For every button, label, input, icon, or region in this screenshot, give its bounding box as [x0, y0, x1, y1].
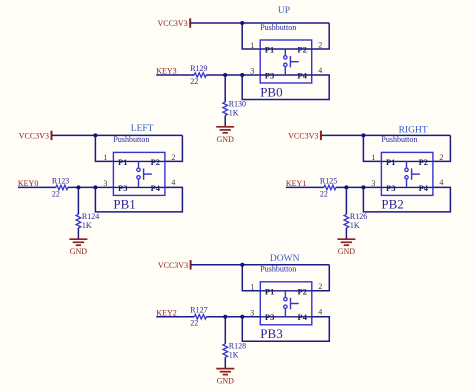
ground	[216, 127, 234, 144]
wire resistor to pin 3	[206, 316, 260, 318]
svg-text:3: 3	[250, 309, 254, 318]
svg-text:VCC3V3: VCC3V3	[19, 131, 49, 140]
svg-text:Pushbutton: Pushbutton	[381, 135, 417, 144]
junction (pull-down R124 tap)	[76, 185, 80, 189]
wire rail to pin 2	[312, 23, 330, 49]
wire tap to R130	[224, 75, 226, 102]
svg-text:P2: P2	[419, 157, 428, 167]
svg-text:GND: GND	[338, 247, 356, 256]
svg-text:P4: P4	[151, 183, 161, 193]
svg-text:GND: GND	[70, 247, 88, 256]
wire rail to pin 1	[363, 135, 381, 161]
wire VCC rail	[190, 22, 329, 24]
wire tap to R128	[224, 317, 226, 344]
junction (pull-down R130 tap)	[223, 73, 227, 77]
svg-text:4: 4	[318, 308, 322, 317]
wire R130 to ground	[224, 116, 226, 127]
pin line P3-P4	[381, 186, 433, 188]
pin line P3-P4	[260, 316, 312, 318]
wire resistor to pin 3	[68, 186, 114, 188]
pushbutton PB3 body	[260, 282, 312, 325]
svg-text:P4: P4	[298, 312, 308, 322]
svg-text:4: 4	[318, 66, 322, 75]
svg-text:22: 22	[190, 77, 198, 86]
pushbutton PB0 body	[260, 40, 312, 83]
junction (pin 4 return)	[361, 185, 365, 189]
wire tap to R124	[77, 187, 79, 214]
wire R128 to ground	[224, 357, 226, 368]
wire KEY net to resistor	[156, 74, 194, 76]
junction (pull-down R128 tap)	[223, 315, 227, 319]
svg-text:R124: R124	[82, 212, 99, 221]
svg-text:P4: P4	[419, 183, 429, 193]
svg-text:R129: R129	[190, 64, 207, 73]
pin line P1-P2	[113, 160, 164, 162]
svg-text:1: 1	[250, 283, 254, 292]
switch contact stubs and circles	[405, 161, 408, 187]
svg-text:P3: P3	[118, 183, 127, 193]
svg-text:VCC3V3: VCC3V3	[158, 261, 188, 270]
svg-text:3: 3	[103, 179, 107, 188]
svg-text:LEFT: LEFT	[131, 124, 154, 134]
svg-text:R126: R126	[350, 212, 367, 221]
svg-text:2: 2	[439, 153, 443, 162]
svg-text:P3: P3	[265, 70, 274, 80]
ground	[69, 239, 87, 256]
svg-text:R127: R127	[190, 306, 207, 315]
power port VCC3V3 (DOWN block)	[158, 260, 191, 270]
power port VCC3V3 (LEFT block)	[19, 131, 52, 141]
ground	[337, 239, 355, 256]
wire KEY net to resistor	[156, 316, 194, 318]
svg-text:PB3: PB3	[260, 326, 282, 341]
wire rail to pin 1	[242, 23, 260, 49]
wire R126 to ground	[345, 228, 347, 239]
pin line P1-P2	[260, 290, 312, 292]
power port VCC3V3 (UP block)	[157, 18, 190, 28]
svg-text:4: 4	[171, 178, 175, 187]
svg-text:GND: GND	[217, 135, 235, 144]
switch contact stubs and circles	[284, 49, 287, 75]
pin line P1-P2	[381, 160, 433, 162]
svg-text:PB2: PB2	[381, 197, 403, 212]
svg-text:R125: R125	[320, 176, 337, 185]
svg-text:P4: P4	[297, 70, 307, 80]
svg-text:2: 2	[318, 40, 322, 49]
svg-text:P1: P1	[118, 157, 127, 167]
switch contact stubs and circles	[137, 161, 140, 187]
junction (pin 4 return)	[93, 185, 97, 189]
switch actuator	[291, 298, 299, 309]
svg-text:RIGHT: RIGHT	[399, 126, 428, 136]
svg-text:1: 1	[103, 153, 107, 162]
svg-text:2: 2	[318, 282, 322, 291]
switch actuator	[144, 168, 152, 179]
wire pin 4 return loop	[363, 187, 450, 212]
svg-text:Pushbutton: Pushbutton	[113, 135, 149, 144]
resistor R130 (1K)	[223, 102, 228, 116]
pushbutton PB2 body	[381, 152, 433, 195]
pin line P3-P4	[113, 186, 164, 188]
resistor R126 (1K)	[344, 214, 349, 228]
svg-text:1: 1	[250, 41, 254, 50]
svg-text:P3: P3	[265, 312, 274, 322]
svg-text:22: 22	[52, 189, 60, 198]
wire VCC rail	[191, 264, 330, 266]
svg-text:4: 4	[439, 178, 443, 187]
svg-text:GND: GND	[217, 377, 235, 386]
svg-text:P1: P1	[265, 45, 274, 55]
svg-text:1K: 1K	[350, 221, 360, 230]
pushbutton PB1 body	[113, 152, 164, 195]
svg-text:PB1: PB1	[113, 197, 135, 212]
wire VCC rail	[321, 134, 451, 136]
wire rail to pin 1	[95, 135, 113, 161]
resistor R124 (1K)	[76, 214, 81, 228]
resistor R125 (22)	[324, 185, 336, 190]
resistor R128 (1K)	[223, 344, 228, 358]
pin line P3-P4	[260, 74, 312, 76]
svg-text:22: 22	[320, 189, 328, 198]
svg-text:1K: 1K	[82, 221, 92, 230]
svg-text:1: 1	[371, 153, 375, 162]
junction (pin 4 return)	[240, 73, 244, 77]
wire rail to pin 2	[165, 135, 183, 161]
svg-text:R128: R128	[229, 341, 246, 350]
svg-text:P2: P2	[298, 286, 307, 296]
svg-text:22: 22	[190, 319, 198, 328]
junction (VCC rail / pin 1 branch)	[361, 133, 365, 137]
wire VCC rail	[52, 134, 183, 136]
svg-text:3: 3	[250, 67, 254, 76]
wire resistor to pin 3	[206, 74, 260, 76]
resistor R127 (22)	[194, 315, 206, 320]
wire rail to pin 1	[242, 265, 260, 291]
svg-text:R123: R123	[52, 176, 69, 185]
svg-text:Pushbutton: Pushbutton	[260, 265, 296, 274]
pin line P1-P2	[260, 48, 312, 50]
wire KEY net to resistor	[18, 186, 56, 188]
svg-text:VCC3V3: VCC3V3	[157, 19, 187, 28]
switch actuator	[290, 56, 298, 67]
wire rail to pin 2	[312, 265, 330, 291]
svg-text:DOWN: DOWN	[270, 254, 300, 264]
wire R124 to ground	[77, 228, 79, 239]
svg-text:UP: UP	[278, 6, 290, 16]
svg-text:2: 2	[171, 153, 175, 162]
svg-text:Pushbutton: Pushbutton	[260, 23, 296, 32]
switch actuator	[412, 168, 420, 179]
svg-text:P2: P2	[297, 45, 306, 55]
wire rail to pin 2	[433, 135, 451, 161]
svg-text:VCC3V3: VCC3V3	[288, 131, 318, 140]
svg-text:P3: P3	[386, 183, 395, 193]
wire pin 4 return loop	[242, 75, 329, 100]
junction (VCC rail / pin 1 branch)	[240, 21, 244, 25]
ground	[216, 369, 234, 386]
svg-text:P2: P2	[151, 157, 160, 167]
power port VCC3V3 (RIGHT block)	[288, 131, 321, 141]
wire resistor to pin 3	[336, 186, 382, 188]
junction (pull-down R126 tap)	[344, 185, 348, 189]
resistor R123 (22)	[56, 185, 68, 190]
svg-text:1K: 1K	[229, 109, 239, 118]
junction (VCC rail / pin 1 branch)	[240, 263, 244, 267]
svg-text:R130: R130	[229, 100, 246, 109]
wire pin 4 return loop	[242, 317, 329, 342]
junction (VCC rail / pin 1 branch)	[93, 133, 97, 137]
resistor R129 (22)	[194, 73, 206, 78]
switch contact stubs and circles	[284, 291, 287, 317]
junction (pin 4 return)	[240, 315, 244, 319]
svg-text:P1: P1	[265, 286, 274, 296]
svg-text:PB0: PB0	[260, 84, 282, 99]
wire tap to R126	[345, 187, 347, 214]
svg-text:1K: 1K	[229, 350, 239, 359]
svg-text:3: 3	[371, 179, 375, 188]
wire pin 4 return loop	[95, 187, 182, 212]
wire KEY net to resistor	[286, 186, 324, 188]
svg-text:P1: P1	[386, 157, 395, 167]
